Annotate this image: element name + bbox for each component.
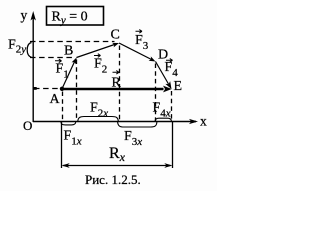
svg-text:A: A	[50, 92, 61, 107]
vector F4 from D to E	[156, 62, 172, 90]
vector F1 from A to B	[62, 58, 77, 89]
svg-text:F1x: F1x	[64, 129, 82, 148]
svg-text:F4x: F4x	[153, 101, 171, 120]
Rx dimension left extension line	[61, 122, 63, 168]
svg-text:F1: F1	[56, 62, 69, 81]
label F2	[94, 54, 107, 76]
Rx dimension double arrow	[62, 163, 173, 168]
svg-text:F2y: F2y	[8, 38, 26, 56]
bracket F1x below axis	[61, 122, 76, 125]
dashed vertical through E	[171, 91, 173, 122]
vector F3 from C to D	[119, 43, 156, 62]
label R	[112, 71, 122, 91]
svg-text:F3x: F3x	[124, 129, 142, 148]
tick on y-axis at A level	[34, 87, 37, 90]
y-axis	[31, 11, 36, 122]
dashed horizontal at B level	[30, 57, 74, 59]
dashed horizontal at C level	[30, 41, 115, 43]
label F1	[55, 59, 69, 81]
point A dot	[60, 87, 64, 91]
brace F2y on y-axis	[27, 43, 31, 58]
svg-text:B: B	[64, 44, 73, 59]
dashed vertical through D	[155, 64, 157, 122]
svg-text:y: y	[21, 8, 28, 23]
svg-text:C: C	[111, 28, 120, 43]
svg-text:Рис. 1.2.5.: Рис. 1.2.5.	[85, 172, 141, 187]
svg-text:D: D	[158, 48, 168, 63]
svg-text:F3: F3	[135, 33, 149, 52]
x-axis	[33, 119, 198, 124]
boxed equation Ry = 0	[47, 7, 104, 27]
Rx dimension right extension line	[172, 122, 174, 168]
svg-text:Ry = 0: Ry = 0	[52, 10, 88, 27]
label F4	[165, 59, 179, 80]
svg-text:E: E	[174, 79, 183, 94]
vector F2 from B to C	[77, 43, 120, 58]
bracket F2x above axis	[78, 117, 119, 122]
svg-text:O: O	[23, 118, 32, 133]
svg-text:x: x	[200, 114, 207, 129]
dashed vertical through C	[119, 46, 121, 122]
svg-text:R: R	[112, 76, 122, 91]
dashed vertical through B	[76, 60, 78, 122]
resultant vector R from A to E (bold)	[62, 86, 172, 93]
dashed vertical through A	[62, 92, 64, 122]
bracket F4x above axis	[155, 118, 171, 121]
dashed horizontal at A level	[34, 88, 60, 90]
bracket F3x below axis	[118, 122, 157, 127]
svg-text:F4: F4	[165, 60, 179, 79]
svg-text:Rx: Rx	[109, 145, 126, 164]
label F3	[135, 30, 149, 53]
svg-text:F2: F2	[94, 57, 107, 76]
